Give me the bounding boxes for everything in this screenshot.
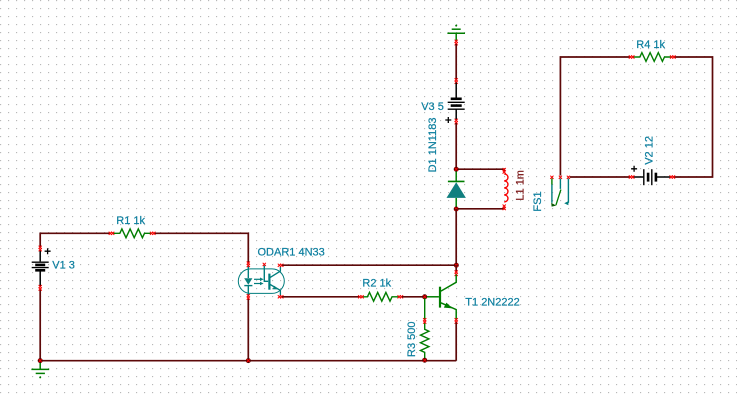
pin marks opto bbox=[247, 262, 250, 268]
svg-text:L1 1m: L1 1m bbox=[514, 170, 526, 201]
battery V2 12 bbox=[631, 166, 670, 185]
svg-text:R1 1k: R1 1k bbox=[116, 215, 145, 227]
pin marks V1 bbox=[39, 246, 42, 252]
wire: R2 to base junction bbox=[402, 296, 425, 298]
switch FS1 bbox=[550, 176, 553, 179]
svg-text:V3 5: V3 5 bbox=[421, 101, 444, 113]
wire: bottom rail bbox=[40, 360, 456, 362]
ground (top, inverted) bbox=[455, 25, 457, 27]
junction A bbox=[454, 167, 459, 172]
wire: V1 bottom to ground rail bbox=[39, 289, 41, 361]
wire: right loop bbox=[560, 57, 712, 177]
battery V3 5 bbox=[445, 83, 464, 124]
svg-text:R3 500: R3 500 bbox=[406, 322, 418, 357]
junction: base node bbox=[422, 294, 427, 299]
resistor R4 1k bbox=[633, 53, 671, 62]
wire: emitter to rail bbox=[455, 322, 457, 360]
junction: rail at V1/ground bbox=[38, 358, 43, 363]
svg-text:ODAR1 4N33: ODAR1 4N33 bbox=[258, 247, 325, 259]
wire: V1 top to R1 and corner down to optocoupler (top-left loop wire) bbox=[40, 233, 248, 263]
wire: gnd to V3 bbox=[455, 44, 457, 80]
battery V1 bbox=[32, 248, 51, 286]
svg-text:D1 1N1183: D1 1N1183 bbox=[427, 118, 439, 173]
wire: opto collector to junction C bbox=[282, 264, 456, 266]
ground (bottom left) bbox=[31, 362, 49, 374]
wire: opto emitter to R2 bbox=[282, 296, 359, 298]
resistor R3 500 bbox=[421, 298, 429, 358]
optocoupler ODAR1 4N33 bbox=[238, 266, 284, 297]
inductor L1 branch wires bbox=[456, 169, 504, 171]
svg-text:R2 1k: R2 1k bbox=[362, 277, 391, 289]
diode D1 1N1183 bbox=[448, 171, 465, 207]
svg-text:V1 3: V1 3 bbox=[52, 260, 75, 272]
svg-text:R4 1k: R4 1k bbox=[636, 39, 665, 51]
svg-text:FS1: FS1 bbox=[532, 191, 544, 211]
svg-text:T1 2N2222: T1 2N2222 bbox=[465, 296, 519, 308]
pin marks R1 bbox=[109, 232, 115, 235]
resistor R1 bbox=[113, 229, 153, 238]
inductor L1 bbox=[504, 174, 508, 202]
wire: opto LED cathode down to rail bbox=[247, 298, 249, 361]
junction B bbox=[454, 207, 459, 212]
transistor T1 2N2222 bbox=[426, 275, 456, 321]
resistor R2 1k bbox=[362, 292, 398, 301]
svg-text:V2 12: V2 12 bbox=[644, 136, 656, 165]
junction: rail at R3 bbox=[422, 358, 427, 363]
wire: junction C to collector bbox=[455, 265, 457, 272]
wire: V3 to junction A bbox=[455, 123, 457, 167]
junction: rail at opto bbox=[246, 358, 251, 363]
junction C bbox=[454, 263, 459, 268]
wire: junction B to junction C bbox=[455, 209, 457, 264]
